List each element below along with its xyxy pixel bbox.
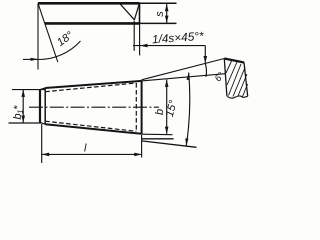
wall: top edge (224, 59, 244, 63)
front view: hidden line top (45, 83, 136, 92)
top view: top edge (38, 2, 140, 5)
b1 dimension line (22, 90, 24, 123)
b1 extension line top (12, 89, 45, 91)
top view: chamfer diagonal left leg (120, 4, 134, 20)
b1 extension line bottom (9, 122, 42, 124)
front view: top edge (45, 81, 141, 88)
15deg reference horizontal line (142, 138, 174, 140)
15deg arc arrowhead bottom (185, 138, 188, 146)
front view: left chamfer line vertical (44, 88, 46, 124)
l dimension line (42, 153, 142, 155)
front view: right end face edge (141, 81, 143, 134)
s dimension arrowhead top (165, 4, 169, 11)
svg-text:b₁*: b₁* (12, 105, 24, 120)
b extension bottom (142, 133, 173, 136)
front view: left top chamfer (40, 88, 45, 90)
l arrowhead right (134, 153, 141, 157)
chamfer dimension line (133, 45, 205, 47)
slope line 15deg to wall corner (142, 59, 225, 80)
b arrowhead top (165, 80, 169, 87)
l extension line left (41, 124, 43, 163)
top view: bottom edge (45, 22, 140, 25)
front view: hidden line bottom (45, 121, 136, 131)
6deg dimension arc (205, 63, 206, 76)
15deg dimension arc (186, 73, 190, 147)
wall: left edge (224, 59, 227, 97)
top view: end face edge (139, 3, 141, 23)
front view: centerline (29, 106, 159, 108)
15deg arc arrowhead top (187, 73, 190, 81)
svg-text:s: s (154, 11, 166, 17)
chamfer extension line right (139, 23, 141, 55)
front view: hidden line end (135, 83, 137, 131)
18deg arrow tail (23, 58, 38, 60)
slot bottom slope line (142, 141, 197, 147)
b1 arrowhead top (21, 90, 25, 97)
chamfer extension line left (133, 21, 135, 51)
front view: left bottom chamfer (40, 122, 45, 124)
extension line vertical at left corner (37, 3, 39, 69)
top view: top edge extension line for s (140, 2, 177, 4)
wall: right edge (244, 63, 248, 97)
b1 arrowhead bottom (21, 116, 25, 123)
s dimension line (166, 4, 168, 23)
top edge extension to wall (142, 74, 226, 81)
l arrowhead left (42, 153, 49, 157)
wall: break line bottom (227, 96, 248, 98)
front view: left end face edge (39, 90, 41, 123)
6deg leader arrowhead (204, 56, 208, 63)
18deg dimension arc (38, 41, 80, 60)
b dimension line (166, 80, 168, 134)
wall hatching (226, 60, 248, 97)
18deg arrowhead (31, 58, 39, 61)
chamfer dimension arrowhead (140, 44, 148, 48)
b arrowhead bottom (165, 127, 169, 134)
l extension line right (141, 135, 143, 158)
6deg leader vertical (204, 46, 206, 63)
top view: 18deg bevel edge (38, 3, 58, 62)
top view: chamfer diagonal right leg (134, 4, 139, 20)
top view: bottom edge extension line for s (140, 22, 177, 24)
s dimension arrowhead bottom (165, 16, 169, 23)
front view: bottom edge (45, 124, 141, 134)
